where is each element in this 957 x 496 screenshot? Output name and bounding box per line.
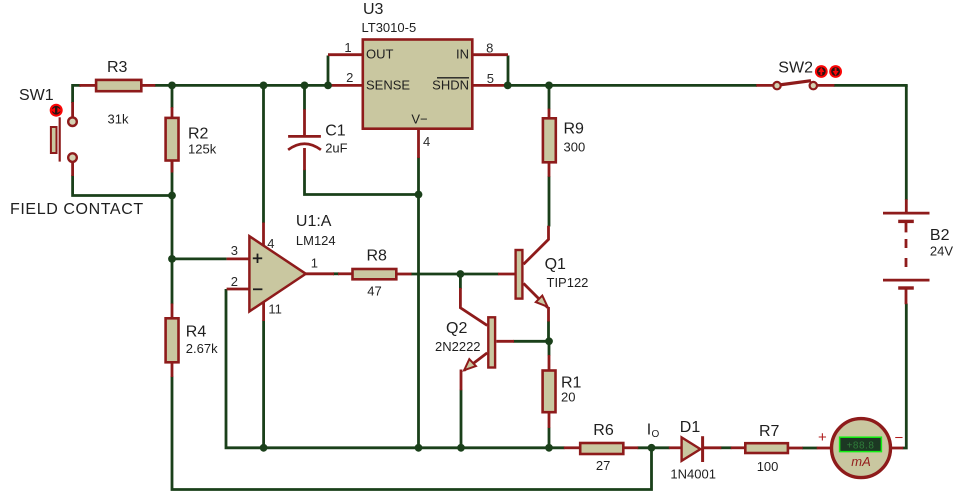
svg-text:SW1: SW1 — [19, 87, 54, 104]
svg-text:2: 2 — [346, 70, 353, 85]
svg-text:R2: R2 — [188, 126, 209, 143]
svg-text:O: O — [652, 429, 660, 440]
svg-text:2.67k: 2.67k — [186, 341, 218, 356]
svg-text:Q2: Q2 — [446, 320, 467, 337]
svg-text:3: 3 — [231, 243, 238, 258]
svg-text:Q1: Q1 — [545, 256, 566, 273]
svg-text:mA: mA — [851, 454, 871, 469]
svg-text:SHDN: SHDN — [432, 78, 469, 93]
svg-text:R8: R8 — [367, 248, 388, 265]
svg-text:+88.8: +88.8 — [847, 441, 875, 452]
svg-text:−: − — [895, 430, 904, 447]
svg-text:11: 11 — [268, 302, 282, 317]
svg-text:24V: 24V — [930, 244, 953, 259]
svg-text:+: + — [818, 429, 827, 446]
svg-text:FIELD CONTACT: FIELD CONTACT — [10, 201, 144, 218]
svg-text:IN: IN — [456, 47, 469, 62]
svg-text:1: 1 — [344, 40, 351, 55]
svg-text:5: 5 — [487, 71, 494, 86]
svg-text:1: 1 — [311, 256, 318, 271]
svg-text:V−: V− — [411, 112, 427, 127]
svg-text:R4: R4 — [186, 324, 207, 341]
svg-text:31k: 31k — [108, 112, 129, 127]
svg-text:47: 47 — [367, 284, 381, 299]
svg-text:B2: B2 — [930, 227, 950, 244]
svg-text:125k: 125k — [188, 142, 217, 157]
svg-text:SW2: SW2 — [778, 59, 813, 76]
svg-text:2uF: 2uF — [325, 141, 347, 156]
svg-text:R6: R6 — [593, 422, 614, 439]
svg-text:1N4001: 1N4001 — [670, 467, 716, 482]
svg-text:D1: D1 — [680, 419, 701, 436]
svg-text:4: 4 — [423, 134, 430, 149]
svg-text:U1:A: U1:A — [296, 213, 332, 230]
svg-text:100: 100 — [757, 459, 779, 474]
svg-text:OUT: OUT — [366, 47, 394, 62]
svg-text:27: 27 — [596, 458, 610, 473]
svg-text:R3: R3 — [107, 59, 128, 76]
svg-text:LT3010-5: LT3010-5 — [362, 20, 417, 35]
svg-text:TIP122: TIP122 — [547, 275, 589, 290]
svg-text:8: 8 — [486, 41, 493, 56]
svg-text:R9: R9 — [564, 121, 585, 138]
svg-text:20: 20 — [561, 390, 575, 405]
svg-text:300: 300 — [564, 140, 586, 155]
svg-text:LM124: LM124 — [296, 233, 336, 248]
svg-text:2: 2 — [231, 274, 238, 289]
svg-text:4: 4 — [267, 236, 274, 251]
svg-text:2N2222: 2N2222 — [435, 339, 481, 354]
svg-text:SENSE: SENSE — [366, 78, 410, 93]
svg-text:U3: U3 — [363, 1, 384, 18]
svg-text:R7: R7 — [759, 423, 780, 440]
svg-text:C1: C1 — [325, 123, 346, 140]
